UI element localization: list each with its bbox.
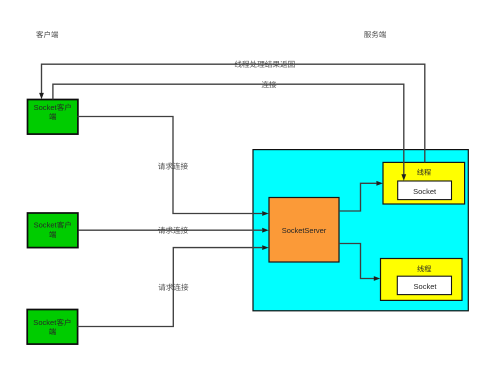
- box Socket客户端 C3 (green client): [27, 310, 77, 345]
- svg-text:Socket: Socket: [33, 318, 57, 327]
- server container (cyan box): [253, 150, 468, 311]
- wire 请求连接 C2→SocketServer: [79, 228, 269, 233]
- label 连接: [262, 81, 277, 88]
- wire 请求连接 C1→SocketServer: [78, 117, 269, 216]
- label 服务端 (server side header): [364, 31, 386, 38]
- label 请求连接 1: [158, 163, 188, 170]
- socket box S1 (white): [398, 181, 452, 200]
- label 请求连接 3: [159, 284, 189, 291]
- svg-text:SocketServer: SocketServer: [282, 226, 327, 235]
- box SocketServer (orange): [269, 198, 339, 263]
- socket box S2 (white): [397, 276, 451, 294]
- wire SocketServer→T1: [339, 181, 383, 211]
- svg-text:Socket: Socket: [34, 221, 58, 230]
- label 请求连接 2: [158, 227, 188, 234]
- wire 请求连接 C3→SocketServer: [78, 245, 269, 326]
- svg-text:Socket: Socket: [413, 187, 437, 196]
- box Socket客户端 C2 (green client): [28, 213, 78, 248]
- wire 连接 C1→Socket(T1): [53, 84, 406, 181]
- box Socket客户端 C1 (green client): [28, 100, 78, 135]
- label 客户端 (client side header): [36, 31, 58, 38]
- svg-text:Socket: Socket: [414, 282, 438, 291]
- wire SocketServer→T2: [339, 244, 380, 281]
- svg-text:Socket: Socket: [34, 103, 58, 112]
- thread box T1 线程 (yellow): [383, 162, 465, 204]
- wire 线程处理结果返回 T1→C1: [39, 64, 425, 162]
- label 线程处理结果返回: [235, 61, 295, 68]
- thread box T2 线程 (yellow): [381, 259, 463, 301]
